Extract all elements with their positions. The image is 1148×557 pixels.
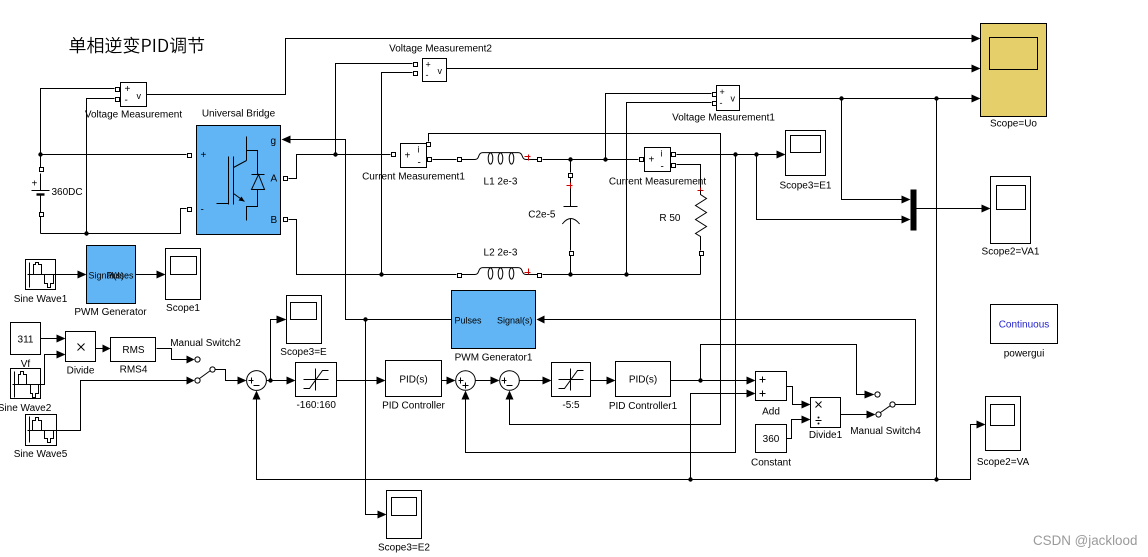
wire: CM1 - output to L1 <box>433 159 457 161</box>
svg-text:Scope1: Scope1 <box>166 303 200 314</box>
saturation block -160:160 <box>296 363 337 412</box>
node: bottom rail junction VM2 - <box>379 272 383 276</box>
port: VM2 - input <box>414 72 418 76</box>
node: feedback rail junction VM1 line <box>934 477 938 481</box>
node: feedback rail junction to Add input2 <box>688 477 692 481</box>
constant block 360 <box>751 425 791 469</box>
wire: bottom rail from L2 to R50 <box>543 274 701 276</box>
svg-text:C2e-5: C2e-5 <box>528 210 556 221</box>
arrowhead into Divide input2 <box>57 351 66 359</box>
arrowhead Manual Switch2 lower <box>187 377 195 385</box>
wire: VM2 v output to Scope=Uo input2 <box>447 68 977 70</box>
port: L1 right <box>538 158 542 162</box>
arrowhead Manual Switch4 upper <box>865 391 875 399</box>
PID Controller block <box>382 361 445 412</box>
port: CM i output <box>672 153 676 157</box>
port: VM - input <box>116 98 120 102</box>
svg-text:Current Measurement: Current Measurement <box>609 177 706 188</box>
svg-text:g: g <box>271 136 277 147</box>
node: bottom rail junction VM1 - <box>624 272 628 276</box>
title 单相逆变PID调节 <box>69 37 204 54</box>
svg-text:i: i <box>418 145 420 155</box>
svg-text:PID Controller1: PID Controller1 <box>609 401 678 412</box>
RMS block RMS4 <box>111 338 156 376</box>
capacitor C2e-5 <box>562 160 579 275</box>
saturation block -5:5 <box>552 363 591 412</box>
port: bridge A output <box>284 177 288 181</box>
wire: VM1 v output to Scope=Uo input3 <box>740 98 977 100</box>
svg-text:A: A <box>271 174 278 185</box>
arrowhead into saturation2 <box>543 377 552 385</box>
arrowhead into Scope=Uo input1 <box>972 35 981 43</box>
powergui block <box>991 305 1058 360</box>
scope Scope2=VA1 <box>982 177 1040 258</box>
PID Controller1 block <box>609 362 678 413</box>
current measurement CM1 (block) <box>401 144 427 168</box>
red polarity mark R50 <box>698 188 704 194</box>
scope Scope3=E1 <box>780 131 832 192</box>
arrowhead into Divide1 input2 <box>802 416 811 424</box>
dc source 360DC battery symbol <box>32 157 50 234</box>
divide block Divide1 <box>809 398 843 442</box>
port: L1 left <box>458 158 462 162</box>
arrowhead into mux input2 <box>902 216 911 224</box>
port: VM1 - input <box>713 102 717 106</box>
port: bridge B output <box>284 218 288 222</box>
adder block Add <box>756 372 787 418</box>
wire: bridge B down to bottom rail <box>289 220 457 275</box>
arrowhead into bridge g <box>282 136 291 144</box>
arrowhead into PID Controller <box>377 377 386 385</box>
wire: PID1 junction up over to Manual Switch4 upper input <box>701 345 871 395</box>
svg-text:Sine Wave1: Sine Wave1 <box>14 294 68 305</box>
svg-text:Universal Bridge: Universal Bridge <box>202 109 276 120</box>
wire: PID Controller1 to Add input1 <box>671 380 748 382</box>
wire: VM1 junction down to mux input1 <box>842 99 903 200</box>
scope Scope=Uo (yellow) <box>981 24 1047 130</box>
arrowhead Manual Switch4 lower <box>867 411 876 419</box>
arrowhead up into sum1 bottom <box>253 391 261 400</box>
svg-text:v: v <box>731 94 736 104</box>
voltage measurement VM (block) <box>121 83 147 107</box>
port: R50 bottom <box>700 252 704 256</box>
scope Scope3=E2 <box>378 491 430 554</box>
svg-text:Voltage Measurement: Voltage Measurement <box>85 110 183 121</box>
arrowhead into sum3 <box>491 377 500 385</box>
red polarity mark L1 <box>525 155 531 161</box>
wire: battery + up to Voltage Measurement + input <box>41 89 115 155</box>
svg-text:Scope3=E2: Scope3=E2 <box>378 543 430 554</box>
svg-text:Voltage Measurement1: Voltage Measurement1 <box>672 113 775 124</box>
svg-text:Scope2=VA: Scope2=VA <box>977 457 1030 468</box>
wire: RMS to Manual Switch2 upper input <box>157 349 191 360</box>
wire: feedback rail from sum1 bottom <box>257 398 982 480</box>
port: VM2 + input <box>414 63 418 67</box>
arrowhead into sum1 <box>238 377 247 385</box>
port: VM1 + input <box>713 93 717 97</box>
manual switch MS4 <box>850 392 921 437</box>
node: bottom rail junction capacitor <box>568 272 572 276</box>
arrowhead into Scope=Uo input2 <box>972 65 981 73</box>
node: i wire junction to mux input2 <box>754 152 758 156</box>
wire: Constant to Divide1 input2 <box>787 420 807 439</box>
svg-text:-160:160: -160:160 <box>296 400 336 411</box>
arrowhead into PWM Generator1 (pointing left) <box>537 316 545 324</box>
red polarity mark C <box>567 183 573 189</box>
arrowhead into Scope1 <box>157 271 166 279</box>
port: capacitor top <box>569 174 573 178</box>
wire: VM v output to Scope=Uo input1 <box>147 39 977 95</box>
svg-text:Manual Switch4: Manual Switch4 <box>850 426 921 437</box>
node: VM1 out junction to mux <box>839 96 843 100</box>
svg-text:Constant: Constant <box>751 458 791 469</box>
svg-text:Sine Wave5: Sine Wave5 <box>14 449 68 460</box>
svg-text:CSDN @jacklood: CSDN @jacklood <box>1033 533 1137 548</box>
arrowhead into saturation1 <box>287 377 296 385</box>
svg-text:L2 2e-3: L2 2e-3 <box>484 248 518 259</box>
svg-text:Scope3=E: Scope3=E <box>280 347 327 358</box>
sine wave source Sine Wave1 <box>14 260 68 306</box>
arrowhead into Scope3=E1 <box>777 151 786 159</box>
arrowhead up into sum3 bottom <box>506 391 514 400</box>
wire: sum1 output to saturation -160:160 <box>267 380 292 382</box>
inductor L1 2e-3 <box>462 153 537 164</box>
scope Scope1 <box>166 249 201 315</box>
svg-text:Scope=Uo: Scope=Uo <box>990 119 1037 130</box>
svg-text:Divide1: Divide1 <box>809 430 843 441</box>
svg-text:R 50: R 50 <box>659 213 681 224</box>
svg-text:PID Controller: PID Controller <box>382 401 445 412</box>
svg-text:-: - <box>201 205 204 216</box>
inductor L2 2e-3 <box>462 268 537 280</box>
svg-text:-: - <box>125 95 128 106</box>
arrowhead into Divide input1 <box>57 335 66 343</box>
port: bridge + input <box>188 154 192 158</box>
sum1 (+-) circle <box>247 371 267 391</box>
universal bridge U1 (block) <box>197 126 281 235</box>
svg-text:i: i <box>661 149 663 159</box>
sum2 (++) circle <box>456 371 476 391</box>
wire: PWM Generator to Scope1 <box>136 274 162 276</box>
node: dc + junction <box>38 152 42 156</box>
arrowhead into Add input1 <box>747 377 756 385</box>
scope Scope3=E <box>280 296 327 359</box>
wire: Sine Wave2 up to Divide input2 <box>41 355 62 385</box>
node: i wire junction to sum2 feed <box>733 152 737 156</box>
arrowhead into mux input1 <box>902 196 911 204</box>
svg-text:RMS: RMS <box>122 345 145 356</box>
svg-text:Divide: Divide <box>67 366 95 377</box>
wire: CM - output to R50 <box>677 165 701 191</box>
svg-text:Scope3=E1: Scope3=E1 <box>780 181 832 192</box>
arrowhead into PID Controller1 <box>607 377 616 385</box>
svg-text:Continuous: Continuous <box>999 320 1050 331</box>
svg-text:Signal(s): Signal(s) <box>497 315 533 325</box>
svg-text:Pulses: Pulses <box>455 315 483 325</box>
arrowhead into RMS <box>103 345 111 353</box>
node: sum1 output junction to Scope3=E <box>268 378 272 382</box>
manual switch MS2 <box>170 338 241 383</box>
wire: CM1 i output across and down to sum3 feedback <box>429 134 721 425</box>
sine wave source Sine Wave2 <box>0 369 52 415</box>
constant 311 (Vf) <box>11 323 41 371</box>
port: battery - terminal <box>40 213 44 217</box>
port: L2 left <box>458 274 462 278</box>
port: VM + input <box>116 88 120 92</box>
wire: saturation1 to PID Controller <box>337 380 382 382</box>
arrowhead into sum2 <box>447 377 456 385</box>
port: CM1 i output <box>427 143 431 147</box>
PWM Generator1 (blue block) <box>452 291 536 364</box>
svg-text:+: + <box>405 151 411 162</box>
port: L2 right <box>538 274 542 278</box>
wire: rail junction up to Add input2 <box>691 394 748 480</box>
svg-text:B: B <box>271 215 278 226</box>
svg-text:+: + <box>720 87 725 97</box>
svg-text:v: v <box>137 91 142 101</box>
wire: dc - rail up to Voltage Measurement - input <box>87 99 115 234</box>
svg-text:RMS4: RMS4 <box>120 365 148 376</box>
node: pulses wire junction to Scope3=E2 <box>363 317 367 321</box>
wire: battery - to bridge - input (bottom dc rail) <box>41 209 187 234</box>
svg-text:PID(s): PID(s) <box>399 375 427 386</box>
wire: i junction down and left to sum2 bottom input <box>466 155 736 453</box>
svg-text:Sine Wave2: Sine Wave2 <box>0 403 52 414</box>
wire: CM i output to Scope3=E1 <box>677 154 782 156</box>
svg-text:Pulses: Pulses <box>106 270 134 280</box>
arrowhead Manual Switch2 upper <box>187 356 195 364</box>
port: CM1 - output <box>428 158 432 162</box>
wire: Divide1 to Manual Switch4 lower input <box>841 414 872 416</box>
node: VM1 out junction to feedback rail <box>934 96 938 100</box>
mux (black bar) <box>911 190 917 231</box>
divide block Divide <box>66 332 96 377</box>
svg-text:powergui: powergui <box>1004 349 1045 360</box>
sine wave source Sine Wave5 <box>14 415 68 461</box>
bridge IGBT/diode icon <box>217 137 265 221</box>
voltage measurement VM2 (block) <box>423 59 447 82</box>
wire: sum3 to saturation -5:5 <box>520 380 548 382</box>
svg-text:+: + <box>125 84 131 95</box>
svg-text:311: 311 <box>18 335 34 346</box>
svg-text:+: + <box>649 155 655 166</box>
port: CM - output <box>672 164 676 168</box>
wire: Sine Wave5 to Manual Switch2 lower input <box>56 381 191 431</box>
svg-text:L1 2e-3: L1 2e-3 <box>484 177 518 188</box>
wire: bridge A to Current Measurement1 + <box>289 155 391 179</box>
node: capacitor top junction <box>568 157 572 161</box>
node: PID1 output junction <box>698 378 702 382</box>
port: capacitor bottom <box>570 252 574 256</box>
svg-text:+: + <box>32 179 38 190</box>
svg-text:-: - <box>418 158 421 169</box>
wire: sum2 to sum3 <box>476 380 496 382</box>
wire: junction up to Scope3=E <box>271 320 283 381</box>
wire: 311 to Divide input1 <box>41 338 62 340</box>
wire: i junction down to mux input2 <box>757 155 903 220</box>
wire: Divide to RMS <box>96 348 107 350</box>
svg-text:Current Measurement1: Current Measurement1 <box>362 172 465 183</box>
wire: Voltage Measurement1 - input down to bottom rail <box>627 103 712 275</box>
svg-text:PWM Generator: PWM Generator <box>74 307 147 318</box>
wire: PID Controller to sum2 <box>442 380 452 382</box>
wire: Voltage Measurement2 - input down to bottom rail <box>382 73 413 275</box>
wire: dc + node to Universal Bridge + input <box>41 154 187 156</box>
voltage measurement VM1 (block) <box>717 86 740 111</box>
port: battery + terminal <box>40 168 44 172</box>
wire: pulses junction down to Scope3=E2 <box>366 320 383 515</box>
svg-text:360DC: 360DC <box>52 187 83 198</box>
wire: saturation2 to PID Controller1 <box>591 380 612 382</box>
svg-text:v: v <box>438 66 443 76</box>
svg-text:Voltage Measurement2: Voltage Measurement2 <box>389 44 492 55</box>
arrowhead into Add input2 <box>747 390 756 398</box>
wire: A junction up to Voltage Measurement2 + input <box>336 64 413 155</box>
arrowhead into Scope=Uo input3 <box>972 95 981 103</box>
port: CM1 + input <box>392 153 396 157</box>
wire: L1 to Current Measurement + (with junctions) <box>543 159 639 161</box>
node: dc - junction <box>84 231 88 235</box>
wire: junction up to Voltage Measurement1 + input <box>606 94 712 160</box>
svg-text:-: - <box>661 162 664 173</box>
wire: VM1 junction down right side to feedback rail <box>936 99 938 480</box>
svg-text:-5:5: -5:5 <box>562 400 580 411</box>
arrowhead into Scope3=E <box>277 316 287 324</box>
svg-text:+: + <box>201 150 207 161</box>
svg-text:Manual Switch2: Manual Switch2 <box>170 338 241 349</box>
wire: Add output to Divide1 input1 <box>787 387 807 405</box>
resistor R50 zigzag <box>696 191 707 251</box>
svg-text:Scope2=VA1: Scope2=VA1 <box>982 247 1040 258</box>
arrowhead into Scope2=VA1 <box>982 205 991 213</box>
wire: Sine Wave1 to PWM Generator <box>56 274 83 276</box>
svg-text:+: + <box>426 60 431 70</box>
arrowhead up into sum2 bottom <box>462 391 470 400</box>
arrowhead into Scope2=VA <box>977 421 986 429</box>
wire: PWM Generator1 pulses to bridge g input <box>291 140 452 320</box>
port: bridge - input <box>188 208 192 212</box>
node: VM1 + junction <box>603 157 607 161</box>
current measurement CM (block) <box>645 148 671 172</box>
PWM Generator (blue block) <box>74 246 147 319</box>
wire: Manual Switch4 output to PWM Generator1 Signal input <box>545 320 916 405</box>
svg-text:PWM Generator1: PWM Generator1 <box>455 353 533 364</box>
scope Scope2=VA <box>977 397 1030 469</box>
sum3 (+-) circle <box>500 371 520 391</box>
svg-text:PID(s): PID(s) <box>629 375 657 386</box>
wire: mux output to Scope2=VA1 <box>917 208 987 210</box>
svg-text:Add: Add <box>762 407 780 418</box>
arrowhead into PWM Generator <box>78 271 87 279</box>
svg-text:-: - <box>720 98 723 108</box>
port: CM + input <box>640 158 644 162</box>
red polarity mark L2 <box>525 269 531 275</box>
wire: R50 bottom to rail <box>700 256 702 275</box>
svg-text:-: - <box>426 70 429 80</box>
arrowhead into Divide1 input1 <box>802 401 811 409</box>
svg-text:360: 360 <box>763 434 780 445</box>
node: A wire junction to VM2 + <box>333 152 337 156</box>
arrowhead into Scope3=E2 <box>378 511 387 519</box>
